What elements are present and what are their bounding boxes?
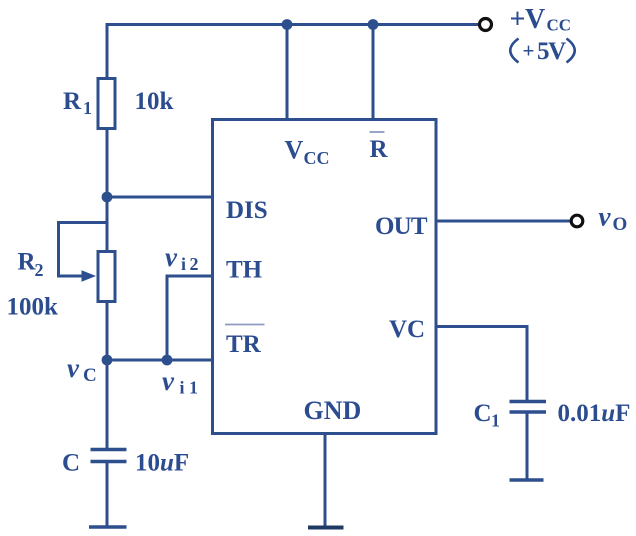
node DIS junction dot	[102, 192, 113, 203]
svg-text:V: V	[285, 136, 304, 165]
svg-text:R: R	[63, 88, 82, 115]
pin label VCC inside box	[285, 136, 330, 169]
value label 10k	[135, 88, 174, 115]
capacitor C plates	[91, 450, 127, 462]
wire C bottom to ground	[106, 462, 109, 528]
value label 0.01uF	[558, 400, 631, 427]
svg-text:GND: GND	[304, 396, 362, 425]
ground (below C)	[89, 525, 127, 529]
label C	[62, 450, 80, 477]
pin label VC	[389, 316, 425, 343]
svg-text:0.01uF: 0.01uF	[558, 400, 631, 427]
svg-text:TR: TR	[226, 331, 262, 358]
svg-text:CC: CC	[304, 148, 330, 168]
value label 10uF	[135, 450, 189, 477]
potentiometer R2 wiper arrow	[59, 223, 108, 282]
svg-text:CC: CC	[547, 16, 572, 35]
terminal +VCC open circle	[480, 19, 492, 31]
svg-text:DIS: DIS	[226, 197, 268, 224]
node junction dot at VCC pin	[282, 19, 293, 30]
pin label R-bar inside box	[370, 132, 389, 163]
node vC junction dot	[102, 355, 113, 366]
wire vi1 vertical to TH pin	[167, 276, 214, 360]
svg-text:v: v	[67, 353, 80, 383]
pin label DIS	[226, 197, 268, 224]
wire top rail from R1 top to +VCC terminal	[107, 25, 479, 79]
svg-text:OUT: OUT	[375, 213, 428, 240]
ground (below C1)	[510, 478, 544, 482]
svg-text:10k: 10k	[135, 88, 174, 115]
label (+5V)	[510, 38, 575, 65]
svg-text:C: C	[83, 365, 97, 386]
svg-text:10uF: 10uF	[135, 450, 189, 477]
pin label TR with overline	[225, 325, 265, 359]
label +VCC	[510, 4, 572, 35]
label R1	[63, 88, 92, 118]
label C1	[474, 400, 501, 431]
wire R2 bottom to capacitor C	[106, 302, 109, 451]
svg-text:v: v	[162, 366, 175, 396]
wire TR pin	[107, 359, 214, 362]
wire C1 bottom to ground	[526, 412, 529, 480]
node vi1 junction dot	[162, 355, 173, 366]
svg-text:2: 2	[35, 260, 44, 280]
svg-text:1: 1	[189, 378, 198, 398]
node label vi2	[165, 242, 199, 274]
capacitor C1 plates	[510, 402, 547, 413]
op-amp U1 555 timer box	[213, 120, 437, 434]
node label vi1	[162, 366, 198, 398]
svg-text:+V: +V	[510, 4, 545, 35]
svg-text:R: R	[370, 136, 389, 163]
svg-text:v: v	[599, 202, 612, 232]
svg-text:VC: VC	[389, 316, 425, 343]
value label 100k	[7, 294, 59, 321]
pin label OUT	[375, 213, 428, 240]
pin label TH	[226, 257, 263, 284]
svg-text:i: i	[180, 378, 185, 398]
potentiometer R2 body	[98, 252, 115, 302]
wire GND pin to ground	[324, 433, 327, 527]
terminal vO open circle	[571, 215, 583, 227]
label R2	[18, 249, 44, 281]
svg-text:i: i	[181, 254, 186, 274]
resistor R1	[98, 79, 115, 129]
svg-text:C: C	[474, 400, 492, 427]
svg-text:C: C	[62, 450, 80, 477]
svg-text:100k: 100k	[7, 294, 59, 321]
wire OUT pin to vO terminal	[435, 220, 570, 223]
wire VCC pin to top rail	[286, 25, 289, 121]
wire R-bar pin to top rail	[372, 25, 375, 121]
node label vO	[599, 202, 628, 236]
node label vC	[67, 353, 97, 386]
svg-text:5V: 5V	[537, 38, 566, 65]
wire DIS pin	[107, 196, 214, 199]
svg-text:2: 2	[190, 254, 199, 274]
pin label GND	[304, 396, 362, 425]
svg-text:TH: TH	[226, 257, 263, 284]
svg-text:+: +	[523, 39, 535, 63]
svg-text:O: O	[613, 214, 628, 235]
svg-text:1: 1	[83, 98, 92, 118]
ground (below GND pin)	[308, 526, 344, 530]
node junction dot at R-bar pin	[368, 19, 379, 30]
wire VC pin to C1	[435, 327, 527, 402]
wire R1 bottom to R2 top	[106, 129, 109, 253]
svg-text:v: v	[165, 242, 178, 272]
svg-text:1: 1	[491, 411, 500, 431]
